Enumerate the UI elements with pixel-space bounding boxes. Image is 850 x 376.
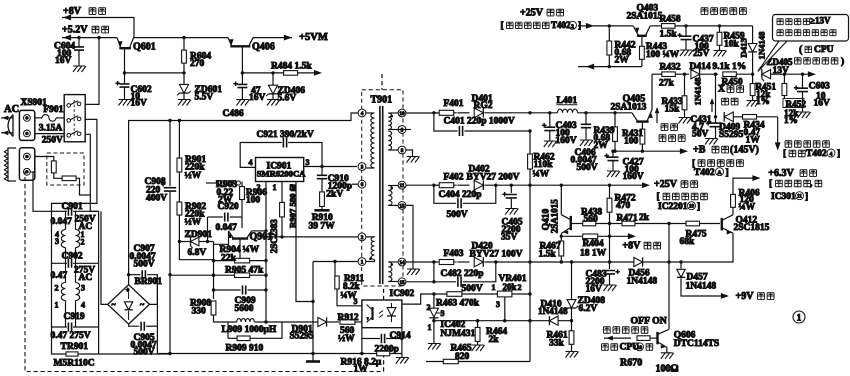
svg-text:BYV27 200V: BYV27 200V [467, 173, 520, 183]
svg-text:F402: F402 [444, 173, 464, 183]
svg-text:AC: AC [79, 273, 93, 283]
svg-text:+: + [616, 267, 620, 276]
svg-text:2SC1815: 2SC1815 [734, 223, 770, 233]
svg-text:22k: 22k [221, 254, 237, 264]
svg-text:500V: 500V [462, 284, 483, 294]
svg-text:1N4148: 1N4148 [538, 306, 568, 316]
svg-text:33k: 33k [549, 338, 565, 348]
wire +8V rail [134, 37, 228, 39]
capacitor C486 [223, 71, 266, 119]
svg-text:TR901: TR901 [61, 342, 89, 352]
connector degauss socket [19, 148, 34, 180]
svg-text:+: + [503, 190, 507, 199]
label field OCP [701, 8, 746, 15]
svg-text:Q406: Q406 [252, 42, 275, 53]
svg-text:68k: 68k [680, 237, 696, 247]
svg-text:1: 1 [492, 283, 496, 292]
svg-text:500V: 500V [447, 210, 468, 220]
svg-text:500V: 500V [577, 163, 598, 173]
shunt reg IC402 [427, 294, 476, 350]
fuse F401 [406, 99, 464, 115]
label line OCP [655, 107, 685, 141]
resistor R907 body [280, 182, 285, 239]
svg-text:R484 1.5k: R484 1.5k [271, 62, 312, 72]
node +8V output label [622, 241, 660, 252]
svg-text:S5295: S5295 [290, 332, 315, 342]
svg-text:(145V): (145V) [730, 145, 759, 156]
inductor L902 choke2 [55, 263, 86, 327]
svg-text:0.047: 0.047 [51, 217, 73, 227]
wire primary common [170, 353, 362, 355]
svg-text:C486: C486 [223, 109, 244, 119]
capacitor C919 [51, 263, 99, 341]
capacitor C405 [501, 184, 523, 243]
resistor R471 [608, 213, 720, 226]
capacitor C907 [127, 244, 157, 304]
capacitor C603 [794, 73, 830, 119]
svg-text:R404: R404 [583, 239, 604, 249]
capacitor C920 [206, 202, 242, 243]
transformer T901 core [380, 106, 383, 284]
svg-text:A: A [718, 170, 722, 176]
svg-text:T402: T402 [551, 20, 571, 30]
svg-text:¼W: ¼W [243, 245, 260, 255]
resistor R434 [743, 115, 778, 146]
wire return line [578, 64, 642, 70]
svg-text:+8V: +8V [622, 241, 641, 252]
svg-text:T901: T901 [371, 95, 393, 106]
svg-text:2W: 2W [615, 56, 630, 66]
diode D409 [719, 112, 744, 140]
svg-text:18 1W: 18 1W [580, 249, 607, 259]
resistor R904 [212, 242, 268, 300]
svg-text:2: 2 [55, 283, 59, 292]
svg-text:[: [ [657, 192, 660, 202]
svg-text:13: 13 [399, 203, 405, 209]
wire bridge ac1 [90, 211, 107, 304]
svg-text:100: 100 [624, 137, 639, 147]
svg-text:9: 9 [401, 128, 404, 134]
transistor Q406 [228, 38, 275, 73]
dashed board border [25, 172, 384, 372]
resistor R472 [607, 184, 636, 264]
svg-text:10k: 10k [724, 40, 740, 50]
svg-text:+: + [126, 286, 130, 294]
svg-text:[: [ [769, 179, 772, 189]
svg-text:6: 6 [361, 182, 364, 188]
wire degauss top [34, 157, 54, 161]
diode D456 [627, 257, 671, 286]
diode D420 [458, 242, 670, 267]
svg-text:C902: C902 [62, 252, 83, 262]
svg-text:5600: 5600 [235, 304, 254, 314]
svg-text:): ) [841, 56, 844, 67]
svg-text:D413: D413 [739, 38, 749, 58]
optocoupler IC902 [362, 289, 415, 328]
wire T901 pin2 link [266, 236, 358, 238]
resistor R439 [594, 111, 618, 151]
node AC label [4, 104, 19, 115]
resistor R432 [652, 62, 689, 88]
svg-text:50V: 50V [692, 129, 709, 139]
svg-text:1N4148: 1N4148 [757, 31, 767, 60]
svg-text:16V: 16V [586, 285, 603, 295]
svg-text:14: 14 [399, 260, 405, 266]
transistor Q405 [611, 74, 653, 121]
svg-text:820: 820 [455, 352, 470, 362]
wire bridge dc+ rail [129, 113, 359, 285]
svg-text:IC301: IC301 [771, 192, 796, 202]
svg-text:160V: 160V [623, 172, 644, 182]
svg-text:AC: AC [4, 104, 19, 115]
resistor R431 [622, 122, 645, 153]
wire +5.2V to switch [85, 36, 101, 105]
resistor R465 [426, 344, 530, 364]
label R907 [288, 184, 298, 228]
svg-text:500V: 500V [134, 260, 155, 270]
svg-text:2: 2 [427, 303, 431, 312]
wire +25V input line [578, 23, 633, 29]
fuse F402 [406, 173, 464, 188]
svg-text:0.47: 0.47 [51, 271, 68, 281]
svg-text:2: 2 [361, 235, 364, 241]
svg-text:10: 10 [637, 346, 643, 351]
wire degauss bottom [33, 172, 52, 212]
svg-text:2k: 2k [639, 213, 650, 223]
wire IC901 pin5 [296, 182, 313, 302]
svg-text:+: + [542, 121, 546, 130]
label circled 1 [793, 311, 805, 323]
label R903 value [217, 188, 234, 206]
dashed isolation line [383, 286, 385, 372]
svg-text:R912: R912 [338, 313, 359, 323]
wire switch bottom down [85, 134, 90, 211]
svg-text:16V: 16V [131, 99, 148, 109]
capacitor C901 [51, 202, 99, 232]
winding sec B [388, 131, 398, 150]
svg-text:+: + [605, 151, 609, 160]
svg-text:+5VM: +5VM [299, 32, 328, 43]
svg-text:C914: C914 [390, 331, 411, 341]
svg-text:1N4148: 1N4148 [627, 277, 658, 287]
pin 8 [398, 146, 419, 162]
capacitor C427 [605, 151, 644, 182]
svg-text:27k: 27k [659, 79, 675, 89]
svg-text:2W: 2W [594, 141, 609, 151]
svg-text:16V: 16V [814, 99, 831, 109]
capacitor C482 [432, 260, 497, 294]
pin 11 [398, 181, 406, 189]
wire Q901 collector [252, 229, 268, 232]
svg-text:400V: 400V [146, 194, 167, 204]
svg-text:2kV: 2kV [326, 190, 343, 200]
wire +B line [611, 148, 688, 154]
svg-text:+6.3V: +6.3V [768, 168, 794, 179]
svg-text:C921 390/2kV: C921 390/2kV [257, 130, 314, 140]
svg-text:470: 470 [616, 201, 631, 211]
pin 6 [352, 180, 366, 188]
resistor R916 [341, 337, 409, 375]
svg-text:[: [ [783, 149, 786, 159]
svg-text:1: 1 [361, 260, 364, 266]
svg-text:2: 2 [81, 237, 85, 246]
svg-text:R909 910: R909 910 [226, 343, 264, 353]
resistor R604 [182, 36, 212, 73]
svg-text:2SA1015: 2SA1015 [627, 11, 663, 21]
wire IC901 pin3 to T901 [304, 165, 357, 168]
winding primary upper [366, 113, 375, 168]
pin 2 [358, 233, 366, 241]
svg-text:35V: 35V [501, 233, 518, 243]
svg-text:1N4148: 1N4148 [693, 77, 703, 106]
node +B dest label [692, 159, 743, 178]
svg-text:4: 4 [249, 158, 253, 167]
diode D901 [282, 317, 339, 341]
label X-ray protect [710, 85, 744, 112]
connector XS901 socket [19, 110, 34, 140]
diode D401 [458, 94, 531, 118]
svg-text:R471: R471 [617, 214, 638, 224]
zener ZD405 [751, 57, 816, 81]
svg-text:BYV27 100V: BYV27 100V [470, 250, 523, 260]
winding sec C [388, 186, 398, 206]
svg-text:100 ¼W: 100 ¼W [646, 50, 680, 60]
svg-text:C603: C603 [809, 82, 830, 92]
node +5.2V output label [62, 25, 109, 36]
svg-text:½W: ½W [185, 171, 202, 181]
winding sec A [388, 113, 398, 130]
potentiometer VR401 [492, 274, 527, 322]
capacitor C437 [678, 24, 714, 59]
svg-text:2SC2383: 2SC2383 [269, 219, 279, 254]
svg-text:1%: 1% [784, 115, 798, 125]
resistor R911 [335, 262, 365, 306]
resistor TR901b [62, 176, 76, 181]
capacitor C905 [129, 275, 170, 358]
svg-text:15k: 15k [665, 105, 681, 115]
node +9V output label [736, 291, 775, 302]
resistor R670 [604, 336, 658, 369]
resistor R451 [747, 74, 777, 106]
resistor TR901a [51, 161, 56, 173]
wire feedback to opto [402, 292, 436, 304]
svg-text:1: 1 [273, 183, 277, 192]
svg-text:BR901: BR901 [135, 277, 163, 287]
svg-text:16V: 16V [249, 93, 266, 103]
resistor R463 [429, 292, 497, 309]
svg-text:0.047: 0.047 [216, 223, 238, 233]
zener ZD901 [178, 230, 214, 258]
node +25V input label [501, 8, 582, 32]
capacitor C909 [212, 286, 268, 315]
resistor R406 [731, 175, 761, 215]
resistor R438 [571, 207, 622, 225]
svg-text:T402: T402 [806, 149, 827, 159]
svg-text:+9V: +9V [736, 291, 755, 302]
resistor R475 [667, 221, 707, 247]
svg-text:4: 4 [830, 152, 833, 158]
resistor R909 [226, 322, 283, 353]
svg-text:8: 8 [401, 148, 404, 154]
resistor R467 [539, 234, 564, 264]
svg-text:F401: F401 [444, 99, 464, 109]
svg-text:1: 1 [428, 323, 432, 332]
resistor R442 [607, 24, 636, 66]
svg-text:2: 2 [571, 24, 574, 30]
wire IC901 pin2 rail [264, 182, 267, 324]
svg-text:IC902: IC902 [390, 289, 415, 299]
winding sec D [388, 262, 398, 282]
svg-text:13V: 13V [773, 66, 790, 76]
resistor R484 [242, 62, 322, 76]
capacitor C431 [690, 74, 721, 144]
svg-text:+25V: +25V [654, 179, 678, 190]
node +25V output label [654, 179, 698, 190]
capacitor C910 [317, 167, 352, 200]
svg-text:500V: 500V [134, 348, 155, 358]
wire TR901 link [54, 173, 62, 178]
resistor R910 [309, 192, 336, 232]
resistor R902 [177, 202, 214, 260]
resistor R443 [640, 36, 680, 67]
transistor Q901 [228, 217, 272, 258]
label 100ohm [656, 364, 679, 375]
transistor Q606 [658, 329, 720, 358]
svg-text:RG2: RG2 [474, 101, 493, 111]
svg-text:[: [ [501, 21, 504, 31]
svg-text:S5295: S5295 [719, 130, 744, 140]
label from CPU [602, 343, 653, 353]
svg-text:3: 3 [354, 297, 358, 306]
label HV pulse [775, 117, 840, 159]
resistor R458 [650, 15, 752, 40]
svg-text:NJM431: NJM431 [440, 329, 475, 339]
svg-text:2: 2 [257, 183, 261, 192]
svg-text:1N4148: 1N4148 [686, 281, 717, 291]
wire filter to bridge [99, 327, 170, 354]
svg-text:]: ] [726, 168, 729, 178]
diode D410 [538, 300, 573, 326]
svg-text:560: 560 [584, 214, 599, 224]
svg-text:OFF ON: OFF ON [631, 315, 667, 326]
resistor R433 [662, 73, 692, 124]
svg-text:6.8V: 6.8V [188, 248, 207, 258]
capacitor C908 main filter [145, 119, 177, 355]
svg-text:R432: R432 [660, 62, 681, 72]
svg-text:R905 47k: R905 47k [225, 266, 264, 276]
svg-text:X: X [718, 85, 725, 95]
transistor Q601 [117, 38, 156, 73]
pin 13 [398, 202, 420, 276]
wire +5.2V output line [62, 35, 117, 41]
svg-text:3: 3 [81, 283, 85, 292]
resistor R462 chain [528, 131, 555, 362]
svg-text:3.15A: 3.15A [39, 124, 63, 134]
node +8V output label [63, 6, 106, 17]
label on-off [604, 315, 667, 333]
svg-text:1.5k: 1.5k [660, 29, 678, 39]
inductor L909 [214, 319, 283, 335]
resistor R464 [472, 319, 508, 351]
resistor R903 [206, 180, 240, 192]
transistor Q412 [722, 215, 770, 235]
svg-text:C919: C919 [64, 312, 85, 322]
svg-text:1: 1 [55, 300, 59, 309]
wire pin1 down to ground bar [306, 262, 320, 362]
ic IC901 SMR6200CA [249, 158, 310, 193]
svg-text:6.2V: 6.2V [579, 304, 598, 314]
svg-text:330: 330 [192, 307, 207, 317]
svg-text:15: 15 [399, 280, 405, 286]
wire Q412 emitter [669, 233, 733, 262]
diode D413 [739, 26, 767, 74]
svg-text:100: 100 [246, 196, 261, 206]
diode D402 [458, 165, 651, 190]
capacitor C403 [542, 111, 577, 147]
svg-text:1W: 1W [746, 136, 761, 146]
inductor L401 [528, 96, 632, 114]
svg-text:+: + [794, 83, 798, 92]
svg-text:+8V: +8V [63, 6, 82, 17]
wire +5VM line [253, 32, 328, 43]
zener ZD408 [565, 260, 605, 320]
capacitor C604 [54, 36, 86, 72]
svg-text:½W: ½W [338, 334, 355, 344]
svg-text:]: ] [837, 149, 840, 159]
wire +8V output line [62, 15, 134, 38]
svg-text:10: 10 [689, 205, 695, 210]
svg-text:CPU: CPU [814, 45, 834, 55]
svg-text:SMR6200CA: SMR6200CA [257, 169, 306, 179]
svg-text:F901: F901 [43, 105, 63, 115]
capacitor C921 [240, 130, 322, 167]
transformer T901 dashed box [362, 74, 403, 286]
svg-text:+: + [116, 79, 120, 88]
fuse F403 [406, 249, 464, 264]
winding base drive [366, 237, 375, 262]
node +6.3V output label [768, 168, 821, 202]
svg-text:160V: 160V [556, 136, 577, 146]
svg-text:C920: C920 [218, 202, 239, 212]
diode D414 [690, 62, 719, 105]
wire T901 pin1 link [313, 260, 358, 263]
svg-text:2SA1015: 2SA1015 [550, 199, 560, 234]
switch S901 power switch [64, 95, 85, 142]
svg-text:2k: 2k [489, 335, 500, 345]
svg-text:5.5V: 5.5V [195, 93, 214, 103]
wire VR401 pin2 [512, 293, 530, 295]
capacitor C401 [432, 111, 532, 136]
svg-text:4: 4 [81, 300, 85, 309]
pin 14 [398, 258, 406, 266]
svg-text:1: 1 [797, 313, 802, 323]
callout protection note [758, 15, 849, 72]
svg-text:1.5k: 1.5k [539, 250, 557, 260]
capacitor C406 [571, 111, 598, 173]
svg-text:+5.2V: +5.2V [62, 25, 88, 36]
svg-text:L909 1000μH: L909 1000μH [222, 325, 277, 335]
node +B output label [693, 145, 759, 156]
zener ZD601 [177, 73, 222, 106]
svg-text:F403: F403 [444, 249, 464, 259]
svg-text:3: 3 [441, 309, 445, 318]
svg-text:R458: R458 [660, 15, 681, 25]
pin 3 [358, 163, 366, 171]
thermistor TR901 main [52, 327, 99, 368]
svg-text:DTC114TS: DTC114TS [674, 339, 719, 349]
diode D457 [677, 260, 729, 299]
svg-text:110k: 110k [534, 160, 554, 170]
